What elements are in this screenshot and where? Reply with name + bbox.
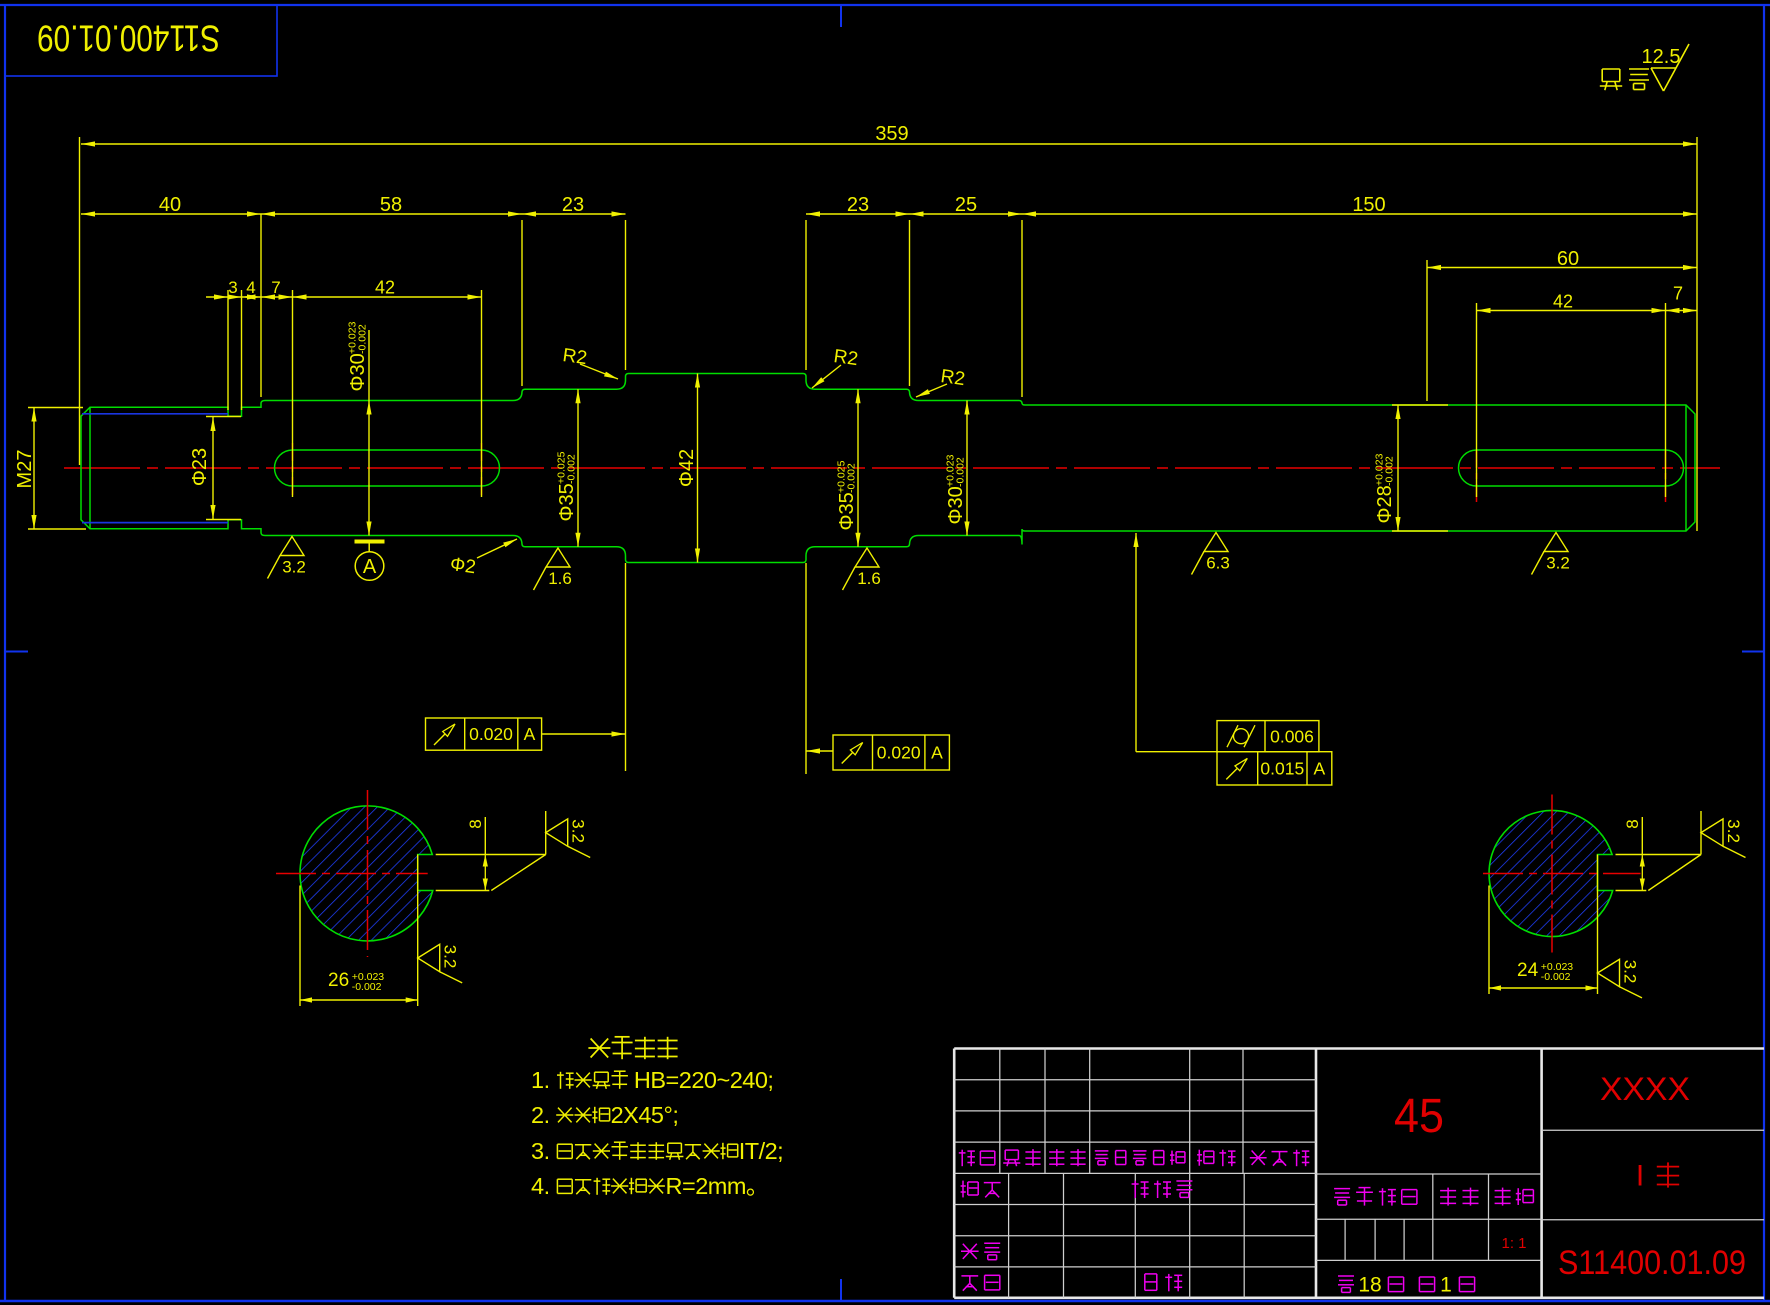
svg-text:12.5: 12.5 <box>1642 46 1681 68</box>
svg-text:3.2: 3.2 <box>569 819 588 843</box>
svg-text:Φ35: Φ35 <box>556 483 578 521</box>
svg-text:0.015: 0.015 <box>1260 759 1304 779</box>
svg-text:-0.002: -0.002 <box>566 454 578 484</box>
svg-text:3.2: 3.2 <box>282 558 306 577</box>
svg-text:150: 150 <box>1352 194 1385 216</box>
svg-text:3.2: 3.2 <box>1621 960 1640 984</box>
svg-text:7: 7 <box>271 278 280 297</box>
svg-text:2.: 2. <box>531 1102 550 1128</box>
svg-text:1.6: 1.6 <box>857 569 881 588</box>
svg-text:-0.002: -0.002 <box>1541 971 1571 983</box>
svg-text:R2: R2 <box>939 366 966 390</box>
svg-text:58: 58 <box>380 194 402 216</box>
svg-text:24: 24 <box>1517 960 1539 981</box>
svg-text:42: 42 <box>1553 291 1573 311</box>
svg-text:3.2: 3.2 <box>1546 554 1570 573</box>
svg-text:8: 8 <box>466 819 485 828</box>
svg-text:R=2mm。: R=2mm。 <box>666 1173 769 1199</box>
svg-text:45: 45 <box>1394 1090 1444 1143</box>
svg-text:7: 7 <box>1673 283 1683 303</box>
svg-text:4: 4 <box>246 278 255 297</box>
svg-text:-0.002: -0.002 <box>352 981 382 993</box>
svg-text:26: 26 <box>328 970 349 991</box>
svg-text:A: A <box>1314 759 1326 779</box>
svg-text:60: 60 <box>1557 248 1579 270</box>
svg-text:3: 3 <box>228 278 237 297</box>
svg-text:R2: R2 <box>832 346 859 370</box>
svg-text:-0.002: -0.002 <box>357 324 369 354</box>
svg-text:6.3: 6.3 <box>1206 554 1230 573</box>
svg-text:S11400.01.09: S11400.01.09 <box>37 18 220 59</box>
svg-text:Φ28: Φ28 <box>1374 485 1396 523</box>
svg-text:Φ42: Φ42 <box>676 449 698 487</box>
svg-text:Φ23: Φ23 <box>189 448 211 486</box>
svg-text:A: A <box>524 724 536 744</box>
svg-text:Φ35: Φ35 <box>836 492 858 530</box>
svg-text:1: 1 <box>1440 1273 1452 1296</box>
svg-text:-0.002: -0.002 <box>1384 456 1396 486</box>
svg-text:359: 359 <box>875 123 908 145</box>
svg-text:42: 42 <box>375 277 395 297</box>
svg-text:-0.002: -0.002 <box>846 463 858 493</box>
svg-text:25: 25 <box>955 194 977 216</box>
svg-text:8: 8 <box>1623 819 1642 828</box>
svg-text:0.020: 0.020 <box>877 743 921 763</box>
svg-text:S11400.01.09: S11400.01.09 <box>1558 1244 1746 1282</box>
svg-text:XXXX: XXXX <box>1600 1071 1690 1107</box>
svg-text:Φ2: Φ2 <box>449 554 477 578</box>
svg-text:1.6: 1.6 <box>548 569 572 588</box>
svg-text:-0.002: -0.002 <box>955 457 967 487</box>
svg-text:23: 23 <box>847 194 869 216</box>
svg-text:4.: 4. <box>531 1173 550 1199</box>
svg-text:18: 18 <box>1358 1273 1381 1296</box>
svg-text:23: 23 <box>562 194 584 216</box>
svg-text:3.2: 3.2 <box>441 945 460 969</box>
svg-text:HB=220~240;: HB=220~240; <box>634 1067 774 1093</box>
svg-text:40: 40 <box>159 194 181 216</box>
svg-text:2X45°;: 2X45°; <box>611 1102 679 1128</box>
svg-text:IT/2;: IT/2; <box>739 1138 784 1164</box>
svg-text:A: A <box>363 556 377 578</box>
svg-text:1.: 1. <box>531 1067 550 1093</box>
svg-text:Φ30: Φ30 <box>945 486 967 524</box>
svg-text:I: I <box>1636 1160 1644 1193</box>
svg-text:0.020: 0.020 <box>469 724 513 744</box>
svg-text:1: 1: 1: 1 <box>1501 1235 1526 1252</box>
svg-text:3.: 3. <box>531 1138 550 1164</box>
svg-text:A: A <box>931 743 943 763</box>
svg-text:M27: M27 <box>14 450 36 489</box>
svg-text:Φ30: Φ30 <box>347 353 369 391</box>
svg-text:3.2: 3.2 <box>1724 819 1743 843</box>
svg-text:0.006: 0.006 <box>1270 726 1314 746</box>
